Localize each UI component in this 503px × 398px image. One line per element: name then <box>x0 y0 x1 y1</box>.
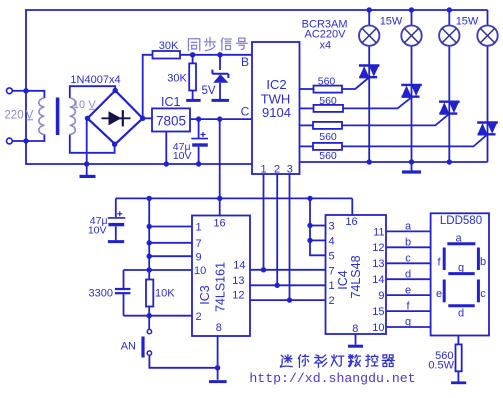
svg-text:3: 3 <box>287 163 293 175</box>
svg-text:15W: 15W <box>456 15 479 27</box>
svg-text:10: 10 <box>194 265 206 277</box>
svg-text:11: 11 <box>373 226 384 238</box>
svg-text:560: 560 <box>319 150 337 162</box>
svg-text:IC4: IC4 <box>336 270 350 290</box>
svg-text:b: b <box>480 256 486 268</box>
svg-text:560: 560 <box>319 131 337 143</box>
svg-text:LDD580: LDD580 <box>440 215 482 227</box>
svg-text:15W: 15W <box>380 15 403 27</box>
svg-text:13: 13 <box>372 258 384 270</box>
svg-text:IC3: IC3 <box>198 285 212 305</box>
svg-text:74LS48: 74LS48 <box>349 255 363 298</box>
svg-text:5V: 5V <box>201 85 215 97</box>
svg-text:IC2: IC2 <box>266 77 286 92</box>
svg-text:13: 13 <box>232 275 244 287</box>
svg-text:12: 12 <box>232 290 244 302</box>
svg-text:1: 1 <box>260 163 266 175</box>
svg-text:560: 560 <box>318 75 336 87</box>
svg-text:AN: AN <box>121 341 136 353</box>
svg-text:15: 15 <box>372 306 384 318</box>
svg-text:2: 2 <box>329 295 335 307</box>
svg-text:a: a <box>405 221 412 233</box>
svg-text:7805: 7805 <box>156 114 186 129</box>
svg-text:8: 8 <box>216 322 222 334</box>
svg-text:10V: 10V <box>88 225 107 237</box>
svg-text:g: g <box>458 262 464 274</box>
svg-text:14: 14 <box>372 274 384 286</box>
svg-text:9: 9 <box>196 251 202 263</box>
svg-text:14: 14 <box>233 259 245 271</box>
svg-text:7: 7 <box>196 238 202 250</box>
svg-text:2: 2 <box>196 311 202 323</box>
svg-text:16: 16 <box>345 216 357 228</box>
svg-text:b: b <box>405 237 411 249</box>
svg-text:B: B <box>241 55 249 69</box>
svg-text:1: 1 <box>329 280 335 292</box>
svg-text:3300: 3300 <box>89 287 113 299</box>
svg-text:560: 560 <box>319 95 337 107</box>
svg-text:220: 220 <box>4 109 23 121</box>
svg-text:30K: 30K <box>159 40 179 52</box>
svg-text:5: 5 <box>329 250 335 262</box>
svg-text:10V: 10V <box>173 150 192 162</box>
svg-text:d: d <box>405 268 411 280</box>
svg-text:e: e <box>405 284 411 296</box>
svg-text:1: 1 <box>196 222 202 234</box>
svg-text:10: 10 <box>73 99 85 111</box>
svg-text:0.5W: 0.5W <box>428 360 454 372</box>
svg-text:3: 3 <box>329 221 335 233</box>
svg-text:IC1: IC1 <box>161 95 181 109</box>
svg-text:d: d <box>458 308 464 320</box>
svg-text:4: 4 <box>329 236 335 248</box>
svg-text:AC220V: AC220V <box>305 28 347 40</box>
svg-text:2: 2 <box>274 163 280 175</box>
svg-text:30K: 30K <box>167 73 187 85</box>
svg-text:c: c <box>480 288 486 300</box>
svg-text:g: g <box>405 316 411 328</box>
svg-text:10K: 10K <box>155 288 175 300</box>
svg-text:12: 12 <box>372 242 384 254</box>
svg-text:10: 10 <box>372 322 384 334</box>
svg-text:e: e <box>436 288 442 300</box>
svg-text:9: 9 <box>378 290 384 302</box>
svg-text:x4: x4 <box>319 40 331 52</box>
svg-text:7: 7 <box>329 265 335 277</box>
svg-text:9104: 9104 <box>262 105 291 120</box>
svg-text:http://xd.shangdu.net: http://xd.shangdu.net <box>249 371 415 386</box>
svg-text:c: c <box>405 253 411 265</box>
svg-text:16: 16 <box>213 218 225 230</box>
svg-text:a: a <box>455 232 462 244</box>
svg-text:1N4007x4: 1N4007x4 <box>70 74 120 86</box>
svg-text:74LS161: 74LS161 <box>214 262 228 312</box>
svg-text:8: 8 <box>352 323 358 335</box>
svg-text:C: C <box>241 105 250 119</box>
